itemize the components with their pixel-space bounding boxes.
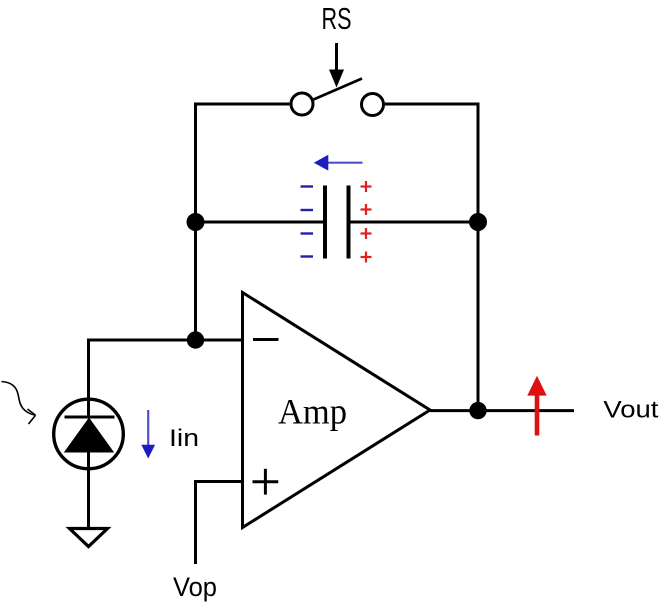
svg-text:RS: RS bbox=[322, 2, 352, 36]
svg-text:Amp: Amp bbox=[278, 391, 347, 431]
svg-text:Vout: Vout bbox=[603, 397, 658, 424]
svg-text:Iin: Iin bbox=[169, 425, 199, 452]
svg-text:Vop: Vop bbox=[173, 572, 217, 602]
